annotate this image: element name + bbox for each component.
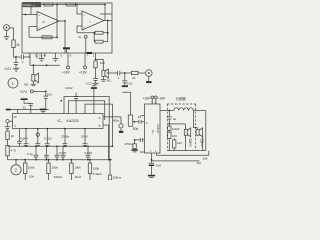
wire to out cap — [107, 72, 118, 74]
node — [56, 36, 58, 38]
svg-text:+18V: +18V — [142, 96, 151, 100]
capacitor 0.01 shunt — [14, 57, 19, 68]
ground SP-L — [101, 77, 107, 82]
node loop2 — [60, 100, 62, 102]
EQ resistor col5 — [109, 159, 111, 161]
ground pin4 — [53, 59, 59, 62]
wire rail2 — [157, 151, 209, 156]
IC1 bottom pin wires — [30, 53, 96, 66]
node — [25, 14, 27, 16]
ground SP-R — [31, 81, 37, 86]
capacitor 0.22 — [93, 68, 98, 83]
svg-text:KA2223: KA2223 — [67, 119, 79, 123]
resistor R5 — [95, 40, 103, 43]
EQ resistor col3 — [71, 159, 73, 161]
svg-text:0.022: 0.022 — [65, 86, 73, 90]
resistor 100 — [168, 130, 170, 132]
wire to tweeter — [169, 124, 185, 129]
node — [56, 4, 58, 6]
resistor 4.7k — [7, 139, 9, 145]
svg-text:2k: 2k — [16, 43, 20, 47]
EQ resistor col1 — [24, 159, 26, 161]
capacitor 4u — [167, 111, 172, 124]
svg-text:16: 16 — [13, 115, 17, 119]
capacitor 1 series — [118, 71, 125, 76]
svg-text:高音8Ω: 高音8Ω — [188, 138, 192, 147]
crossover dashed box — [167, 104, 195, 151]
node U1B output — [107, 20, 109, 22]
node speaker tap — [32, 64, 34, 66]
wire top feedback bus — [22, 5, 105, 15]
wire input — [9, 28, 13, 40]
svg-text:1500: 1500 — [81, 134, 88, 138]
op-amp U1A — [37, 12, 59, 31]
svg-text:100: 100 — [100, 61, 105, 65]
wire loop 3 — [85, 104, 112, 146]
wire rail1 — [167, 150, 206, 152]
svg-text:100: 100 — [140, 150, 145, 154]
EQ resistor col2 — [48, 159, 50, 161]
wire stub pin9 — [103, 117, 121, 124]
node — [104, 4, 106, 6]
inductor L1 — [169, 108, 206, 111]
circled 2 — [11, 165, 21, 175]
wire — [14, 48, 21, 58]
svg-text:100k: 100k — [74, 166, 81, 170]
wire U1B feedback lower — [77, 5, 108, 42]
circled 1 — [8, 78, 18, 88]
svg-text:IC₂: IC₂ — [58, 119, 63, 123]
svg-text:4.7k: 4.7k — [10, 148, 16, 152]
node — [64, 20, 66, 22]
svg-text:100k: 100k — [51, 166, 58, 170]
svg-text:低音8Ω: 低音8Ω — [200, 138, 204, 147]
wire bottom bus — [30, 64, 60, 66]
svg-text:2k: 2k — [132, 76, 136, 80]
wire U1B inputs — [77, 5, 82, 33]
svg-text:4700p: 4700p — [124, 142, 133, 146]
ground + cap 22 — [21, 100, 34, 114]
svg-text:1kHz: 1kHz — [74, 175, 81, 179]
svg-text:680p: 680p — [113, 119, 120, 123]
svg-text:50k: 50k — [133, 127, 139, 131]
output jack — [146, 70, 153, 77]
EQ resistor col4 — [89, 159, 91, 161]
resistor R1 — [44, 3, 53, 6]
wire right side — [205, 111, 207, 151]
capacitor bold — [40, 109, 46, 111]
resistor 2k horizontal — [125, 72, 132, 74]
IC3 box — [145, 104, 161, 153]
resistor to ground — [134, 140, 136, 144]
row2 capacitor d — [61, 146, 66, 160]
junction dots EQ row1 — [15, 128, 113, 161]
wire rail EQ upper — [8, 145, 113, 147]
terminal +18V pin6 — [67, 66, 70, 69]
capacitor 100 decoupling — [43, 91, 48, 109]
svg-text:4μ: 4μ — [173, 117, 177, 121]
ground mid — [91, 87, 97, 89]
resistor 100 b — [173, 140, 176, 148]
wire rail above IC2 — [8, 110, 49, 114]
node — [107, 32, 109, 34]
wire bus EQ lower — [8, 159, 113, 161]
node out — [95, 59, 97, 61]
input jack J1 — [4, 25, 10, 31]
resistor R3 — [42, 36, 52, 39]
wire stub pin8 — [103, 125, 109, 160]
op-amp U1B — [82, 11, 104, 30]
speaker SP-R — [32, 75, 35, 82]
terminal +18V pin7 — [84, 66, 87, 69]
svg-text:10kHz: 10kHz — [113, 176, 122, 180]
ground — [13, 68, 19, 71]
IC3 left pin stub — [141, 115, 145, 117]
speaker woofer — [196, 129, 199, 135]
ground — [148, 175, 155, 177]
svg-text:-18V: -18V — [158, 97, 166, 101]
svg-text:IC₃: IC₃ — [151, 130, 155, 134]
svg-text:分频器: 分频器 — [176, 96, 187, 101]
svg-text:0.022: 0.022 — [172, 127, 180, 131]
svg-text:+18V: +18V — [79, 70, 88, 74]
svg-text:10k: 10k — [29, 174, 34, 178]
capacitor 0.01 shunt 2 — [122, 73, 127, 85]
capacitor 0.022 — [168, 124, 170, 126]
IC2 box — [13, 114, 104, 129]
svg-text:+18V: +18V — [62, 70, 71, 74]
potentiometer 50k — [128, 115, 132, 126]
svg-text:KA22617: KA22617 — [23, 3, 36, 7]
speaker SP-L — [102, 70, 105, 76]
wire loop 1 — [64, 97, 109, 160]
svg-text:100: 100 — [172, 134, 177, 138]
svg-text:0.033: 0.033 — [85, 151, 93, 155]
wire to volume pot — [122, 92, 130, 115]
svg-text:100k: 100k — [93, 166, 100, 170]
svg-text:10k: 10k — [203, 156, 208, 160]
wire U1A noninverting — [29, 27, 57, 38]
svg-text:0.01: 0.01 — [127, 82, 133, 86]
svg-text:+17V: +17V — [19, 90, 28, 94]
cap plate mark — [87, 52, 93, 54]
row2 capacitor b — [44, 146, 49, 160]
svg-text:22: 22 — [23, 106, 27, 110]
svg-text:100: 100 — [156, 164, 161, 168]
IC1 outer box — [22, 3, 112, 53]
svg-text:10: 10 — [11, 134, 15, 138]
capacitor col2 — [35, 129, 40, 147]
resistor 100 zobel — [94, 61, 97, 68]
capacitor C1 series — [21, 55, 30, 60]
node — [93, 32, 95, 34]
input jack 2 — [6, 120, 9, 123]
wire U1A feedback — [57, 5, 65, 54]
ground pin3 — [39, 59, 45, 62]
speaker tweeter — [184, 129, 187, 135]
resistor 2k — [12, 40, 15, 48]
svg-text:100k: 100k — [28, 166, 35, 170]
ground inside IC1 — [63, 47, 70, 49]
wire rail3 — [152, 160, 200, 162]
svg-text:0.022: 0.022 — [44, 137, 52, 141]
capacitor 680p — [119, 124, 123, 128]
svg-text:0.01: 0.01 — [5, 67, 12, 71]
wire loop 2 — [69, 101, 105, 120]
svg-text:330Hz: 330Hz — [54, 175, 63, 179]
node — [76, 4, 78, 6]
svg-text:100: 100 — [47, 92, 52, 96]
resistor R2 — [66, 3, 76, 6]
svg-text:3.3kHz: 3.3kHz — [93, 172, 103, 176]
svg-text:0.22: 0.22 — [86, 82, 92, 86]
resistor R4 — [95, 31, 103, 34]
svg-text:100: 100 — [177, 141, 182, 145]
IC1 part number label — [23, 2, 42, 7]
wire U1B output — [100, 14, 112, 21]
wire coil to woofer — [193, 111, 197, 130]
capacitor 4700p — [135, 138, 145, 142]
ground J1 — [4, 30, 10, 39]
capacitor 100 polarized — [149, 162, 155, 164]
svg-text:KA8497: KA8497 — [156, 124, 160, 134]
IC3 output wire — [160, 110, 169, 112]
svg-text:0.1μ: 0.1μ — [27, 152, 33, 156]
capacitor 1u — [17, 129, 22, 147]
resistor 10 — [7, 129, 9, 132]
